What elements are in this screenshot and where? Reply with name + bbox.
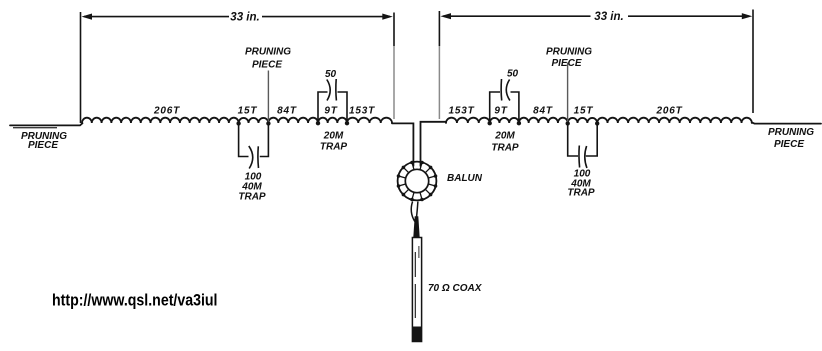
arrowhead left [440,13,451,19]
capacitor plate curved right [506,80,510,101]
inductor coil 206T right [597,118,752,123]
svg-text:TRAP: TRAP [567,188,595,199]
svg-text:20M: 20M [494,131,515,142]
svg-text:BALUN: BALUN [447,173,483,184]
junction dot right 40M trap left [566,121,570,125]
svg-text:TRAP: TRAP [238,192,266,203]
svg-text:84T: 84T [277,106,297,117]
dimension line 33 in. right [443,15,749,17]
capacitor plate left [500,79,503,101]
wire right pruning piece [752,122,821,123]
inductor coil 153T right [446,118,490,123]
capacitor 100 40M trap left : wiring [239,124,249,157]
svg-text:206T: 206T [153,106,180,117]
svg-text:PRUNING: PRUNING [546,47,592,58]
wire left pruning piece [10,123,83,125]
svg-text:33 in.: 33 in. [230,11,259,23]
capacitor plate left [578,146,581,168]
junction dot left 20M trap right [345,121,349,125]
pruning piece pointer line left [267,71,269,122]
junction dot right 40M trap right [595,121,599,125]
svg-text:PIECE: PIECE [252,59,282,70]
inductor coil 84T right [519,118,568,123]
svg-text:84T: 84T [533,106,553,117]
svg-text:PRUNING: PRUNING [768,127,814,138]
inductor coil 84T left [268,118,318,123]
coax connector [413,216,419,237]
inductor coil 153T left [347,118,392,123]
capacitor 50 20M trap right : wiring [490,92,500,123]
svg-text:9T: 9T [494,106,507,117]
capacitor 100 40M trap right : wiring [568,124,578,157]
balun U1 toroid [397,161,438,202]
capacitor plate curved left [327,80,330,101]
capacitor plate right [335,79,338,101]
svg-text:TRAP: TRAP [491,143,519,154]
capacitor plate curved right [585,146,587,168]
dimension line 33 in. left [84,16,390,18]
svg-text:PRUNING: PRUNING [245,46,291,57]
wire left pruning piece overlap stroke [13,127,57,129]
dimension extension bar left outer [80,12,82,123]
junction dot right 20M trap right [517,121,521,125]
wire right half to balun [421,122,447,166]
svg-text:PIECE: PIECE [551,58,581,69]
svg-text:50: 50 [325,69,337,80]
inductor coil 9T left [318,118,347,123]
dimension extension bar right outer [752,10,754,114]
capacitor plate right [257,146,260,168]
inductor coil 9T right [490,118,519,123]
svg-text:33 in.: 33 in. [594,11,623,23]
arrowhead right [742,13,753,19]
inductor coil 15T right [568,118,597,123]
arrowhead left [82,14,93,20]
coax cable body 70 ohm [412,238,421,342]
svg-text:20M: 20M [323,131,344,142]
svg-text:15T: 15T [238,106,258,117]
wire balun to coax left lead [411,202,415,222]
svg-text:15T: 15T [574,106,594,117]
junction dot left 40M trap left [236,121,240,125]
inductor coil 206T left [82,118,239,123]
wire left half to balun [392,123,413,166]
inductor coil 15T left [239,118,269,123]
svg-text:153T: 153T [349,106,375,117]
svg-text:PIECE: PIECE [28,140,58,151]
svg-text:206T: 206T [656,106,683,117]
svg-text:http://www.qsl.net/va3iul: http://www.qsl.net/va3iul [52,291,218,310]
junction dot right 20M trap left [488,121,492,125]
junction dot left 40M trap right [266,121,270,125]
svg-text:TRAP: TRAP [320,142,348,153]
wire balun to coax right lead [417,202,418,217]
dimension extension bar right inner [438,11,440,46]
svg-text:70 Ω COAX: 70 Ω COAX [428,283,483,294]
junction dot left 20M trap left [316,121,320,125]
capacitor plate curved left [249,146,253,169]
svg-text:153T: 153T [449,106,475,117]
svg-text:PIECE: PIECE [774,139,804,150]
svg-text:50: 50 [507,69,519,80]
dimension extension bar left inner [393,13,395,47]
pruning piece pointer line right [567,63,569,122]
capacitor 50 20M trap left : wiring [318,92,328,123]
svg-text:9T: 9T [324,106,337,117]
arrowhead right [382,14,393,20]
